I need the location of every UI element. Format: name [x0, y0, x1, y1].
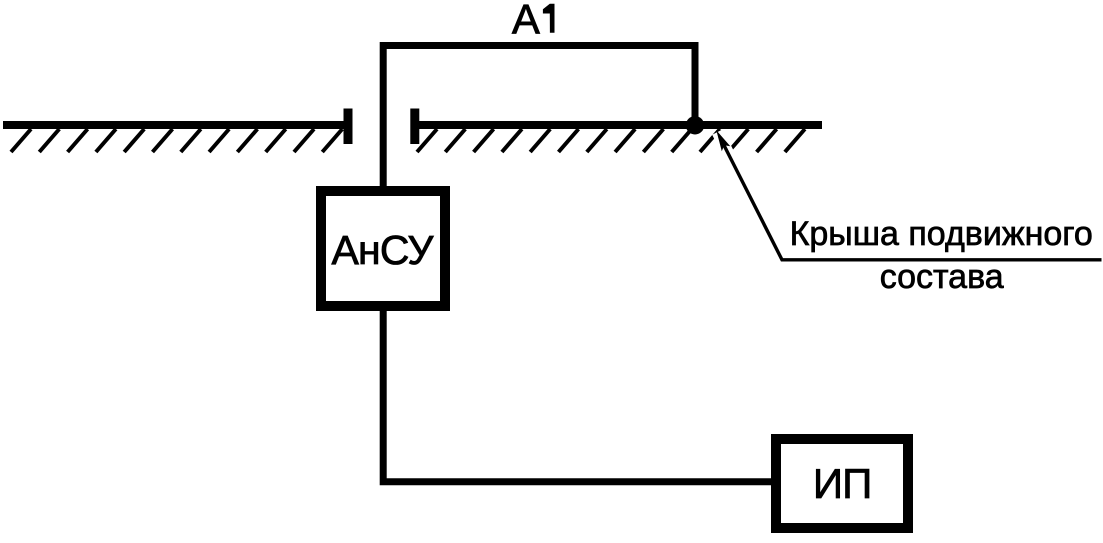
roof surface line left — [3, 121, 348, 129]
svg-text:Крыша подвижного: Крыша подвижного — [790, 215, 1093, 253]
svg-text:состава: состава — [880, 258, 1004, 296]
ground hatching right — [417, 129, 805, 152]
leader halo (white gap in hatching around arrow) — [718, 132, 781, 256]
svg-text:ИП: ИП — [813, 460, 872, 507]
leader line of label Крыша подвижного состава — [720, 137, 1102, 260]
roof surface line right — [414, 121, 822, 129]
ground hatching left — [11, 129, 342, 152]
device box ИП — [776, 439, 908, 528]
leader arrowhead — [716, 130, 730, 151]
node: connection point on roof — [686, 116, 704, 134]
svg-text:А: А — [512, 0, 540, 42]
svg-text:АнСУ: АнСУ — [332, 227, 435, 273]
roof surface left end tick — [344, 109, 353, 145]
device box АнСУ — [321, 191, 445, 306]
roof surface right start tick — [410, 109, 419, 145]
wire from АнСУ down and right to ИП — [383, 311, 771, 482]
wire А1: antenna loop from АнСУ box over to roof node — [383, 46, 695, 187]
